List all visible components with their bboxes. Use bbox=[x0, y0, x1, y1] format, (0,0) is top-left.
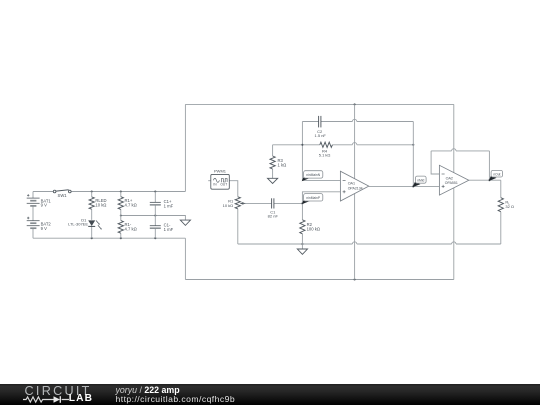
resistor R1- 4.7 k bbox=[118, 221, 123, 234]
svg-text:OPA2134: OPA2134 bbox=[348, 187, 363, 191]
svg-text:IN: IN bbox=[213, 182, 217, 186]
wire left chain top rail (+9V) bbox=[33, 191, 185, 193]
resistor RLED 10 k bbox=[89, 197, 94, 209]
wire feedback from C2/R4 to OA1 output bbox=[412, 122, 414, 187]
svg-text:9 V: 9 V bbox=[41, 226, 47, 231]
LED D1 LTL-307EE bbox=[88, 220, 95, 226]
wire left box edge upper segment bbox=[184, 104, 186, 191]
svg-text:ninMainN: ninMainN bbox=[306, 173, 321, 177]
CircuitLab logo text LAB bbox=[69, 394, 93, 404]
svg-text:10 kΩ: 10 kΩ bbox=[223, 203, 234, 208]
wire node ninMainP riser to OA1 plus input bbox=[302, 192, 340, 204]
svg-text:1.5 nF: 1.5 nF bbox=[315, 133, 327, 138]
wire C1+/C1- column bbox=[154, 192, 156, 239]
resistor R3 1 k bbox=[270, 156, 275, 169]
source PWM1 bbox=[211, 174, 230, 189]
wire R2 leads and ground stub bbox=[301, 203, 303, 249]
svg-text:1 kΩ: 1 kΩ bbox=[278, 163, 287, 168]
capacitor C1+ 1 mF bbox=[150, 201, 161, 203]
svg-text:100 kΩ: 100 kΩ bbox=[307, 226, 320, 231]
node nMid flag bbox=[413, 182, 421, 187]
resistor R2 100 k bbox=[300, 220, 305, 234]
ground (battery mid rail) bbox=[180, 220, 190, 225]
node ninMainP flag bbox=[302, 199, 310, 204]
svg-text:nOut: nOut bbox=[493, 172, 500, 176]
wire 0V rail bbox=[238, 242, 501, 244]
wire OA2 V- supply (box right edge lower) bbox=[453, 188, 455, 280]
node ninMainN flag bbox=[302, 176, 310, 181]
svg-text:nMid: nMid bbox=[417, 178, 424, 182]
svg-text:SW1: SW1 bbox=[58, 193, 68, 198]
svg-text:LTL-307EE: LTL-307EE bbox=[68, 221, 88, 226]
wire PWM1 output to R1 pot bbox=[229, 181, 238, 197]
capacitor C1 82 nF bbox=[271, 198, 273, 208]
potentiometer R1 10 k bbox=[235, 197, 240, 209]
op-amp OA1 OPA2134 bbox=[340, 171, 368, 201]
wire R1 wiper to C1 bbox=[245, 202, 272, 204]
wire R3 leads bbox=[272, 145, 274, 178]
wire OA1 V- supply bbox=[354, 194, 356, 280]
wire R1+/R1- column bbox=[120, 192, 122, 239]
capacitor C2 1.5 nF bbox=[318, 116, 320, 128]
op-amp OA2 OPA551 bbox=[439, 165, 468, 195]
wire OA1 output to OA2 plus input (node nMid) bbox=[369, 185, 440, 187]
svg-text:9 V: 9 V bbox=[41, 203, 47, 208]
wire OA2 V+ supply (box right edge upper) bbox=[453, 104, 455, 172]
svg-text:82 nF: 82 nF bbox=[268, 213, 279, 218]
wire left box edge lower segment bbox=[184, 238, 186, 279]
CircuitLab logo text CIRCUIT bbox=[25, 385, 92, 398]
svg-text:ninMainP: ninMainP bbox=[306, 196, 321, 200]
resistor R1+ 4.7 k bbox=[118, 197, 123, 210]
wire R1 pot bottom to 0V rail bbox=[237, 209, 239, 244]
switch SW1 bbox=[56, 190, 69, 191]
footer credit: yoryu / 222 amp bbox=[116, 386, 180, 395]
svg-text:32 Ω: 32 Ω bbox=[505, 204, 514, 209]
svg-text:4.7 kΩ: 4.7 kΩ bbox=[125, 203, 137, 208]
battery BAT1 9 V bbox=[27, 197, 40, 199]
wire OA1 V+ supply bbox=[354, 104, 356, 178]
svg-text:10 kΩ: 10 kΩ bbox=[95, 203, 106, 208]
svg-text:4.7 kΩ: 4.7 kΩ bbox=[125, 227, 137, 232]
capacitor C1- 1 mF bbox=[150, 225, 161, 227]
svg-text:OA1: OA1 bbox=[348, 182, 355, 186]
wire RL column bbox=[500, 180, 502, 244]
node nOut flag bbox=[489, 176, 497, 181]
wire mid rail (0V) with ground stub bbox=[121, 216, 186, 220]
wire node ninMainN riser to OA1 minus input bbox=[302, 122, 340, 181]
wire left chain bottom rail (-9V) bbox=[33, 237, 185, 239]
CircuitLab logo resistor-diode graphic bbox=[22, 395, 72, 405]
wire R3/R4 node bbox=[273, 143, 414, 145]
battery BAT2 9 V bbox=[27, 220, 40, 222]
ground (R2) bbox=[297, 249, 307, 254]
svg-text:5.1 kΩ: 5.1 kΩ bbox=[319, 152, 331, 157]
wire -9V bottom rail bbox=[185, 279, 453, 281]
resistor RL 32 ohm bbox=[498, 198, 503, 212]
wire C2 branch bbox=[302, 119, 413, 121]
wire RLED/LED column bbox=[91, 192, 93, 239]
wire OA2 output (node nOut) bbox=[469, 179, 501, 181]
svg-text:OPA551: OPA551 bbox=[445, 181, 458, 185]
svg-text:OA2: OA2 bbox=[446, 176, 453, 180]
footer url bbox=[116, 395, 236, 404]
wire OA2 feedback loop bbox=[431, 149, 489, 181]
wire PWM1 input stub bbox=[208, 180, 211, 182]
svg-text:1 mF: 1 mF bbox=[164, 204, 174, 209]
svg-text:1 mF: 1 mF bbox=[164, 227, 174, 232]
wire C1 to node ninMainP bbox=[274, 202, 303, 204]
ground (R3) bbox=[268, 178, 278, 183]
wire battery column bbox=[32, 192, 34, 239]
footer bar bbox=[0, 384, 540, 405]
resistor R4 5.1 k bbox=[320, 142, 333, 147]
wire +9V top rail bbox=[185, 103, 453, 105]
svg-text:PWM1: PWM1 bbox=[214, 168, 227, 173]
svg-text:OUT: OUT bbox=[220, 182, 227, 186]
